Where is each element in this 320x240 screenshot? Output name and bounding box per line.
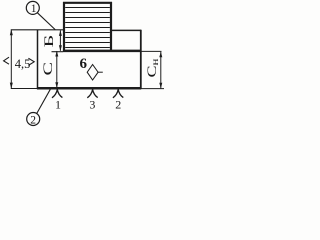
arrow down Сн [159, 83, 162, 89]
workpiece bottom edge [37, 87, 141, 90]
svg-text:Б: Б [42, 35, 56, 48]
clamp block (hatched) outline [63, 2, 112, 51]
workpiece top-left surface with left extension line [11, 29, 64, 31]
callout circle 1 [26, 1, 39, 14]
callout circle 2 [27, 113, 40, 126]
dimension Сн line [160, 52, 162, 89]
svg-text:6: 6 [80, 56, 88, 72]
workpiece left edge [37, 30, 39, 89]
clamp block hatching [65, 8, 110, 48]
leader line to callout 1 [37, 13, 55, 30]
arrow up 4,5 [10, 29, 13, 35]
arrow up C [55, 51, 58, 57]
arrow up Сн [159, 52, 162, 58]
dimension Б line [59, 30, 61, 50]
dimension tick at groove bottom left [52, 51, 64, 53]
dimension arrows [10, 29, 163, 88]
svg-text:1: 1 [31, 3, 37, 15]
dimension 4,5 line [10, 30, 12, 89]
arrow down Б [59, 45, 62, 51]
svg-text:2: 2 [30, 114, 36, 126]
arrow up Б [59, 30, 62, 36]
bottom extension line right [141, 88, 164, 90]
support symbol 1 [52, 90, 62, 98]
workpiece right edge [140, 30, 142, 89]
support symbol 3 [87, 90, 97, 98]
arrow down 4,5 [10, 83, 13, 89]
svg-text:С: С [40, 62, 55, 76]
right angle mark [28, 58, 34, 65]
bottom extension line left [11, 88, 37, 90]
mid extension line right [141, 50, 162, 52]
left angle mark [4, 57, 9, 64]
svg-text:3: 3 [89, 98, 95, 112]
svg-text:4,5: 4,5 [15, 57, 31, 71]
right boss top edge [112, 29, 142, 31]
support symbol 2 [113, 90, 123, 98]
svg-text:1: 1 [55, 97, 61, 111]
arrow down C [55, 82, 58, 88]
leader line to callout 2 [37, 89, 51, 113]
dimension C line [56, 51, 58, 88]
groove bottom thick line [63, 50, 141, 53]
diamond locating pin [87, 65, 98, 81]
svg-text:2: 2 [115, 98, 121, 112]
diamond pin tick [98, 71, 103, 73]
